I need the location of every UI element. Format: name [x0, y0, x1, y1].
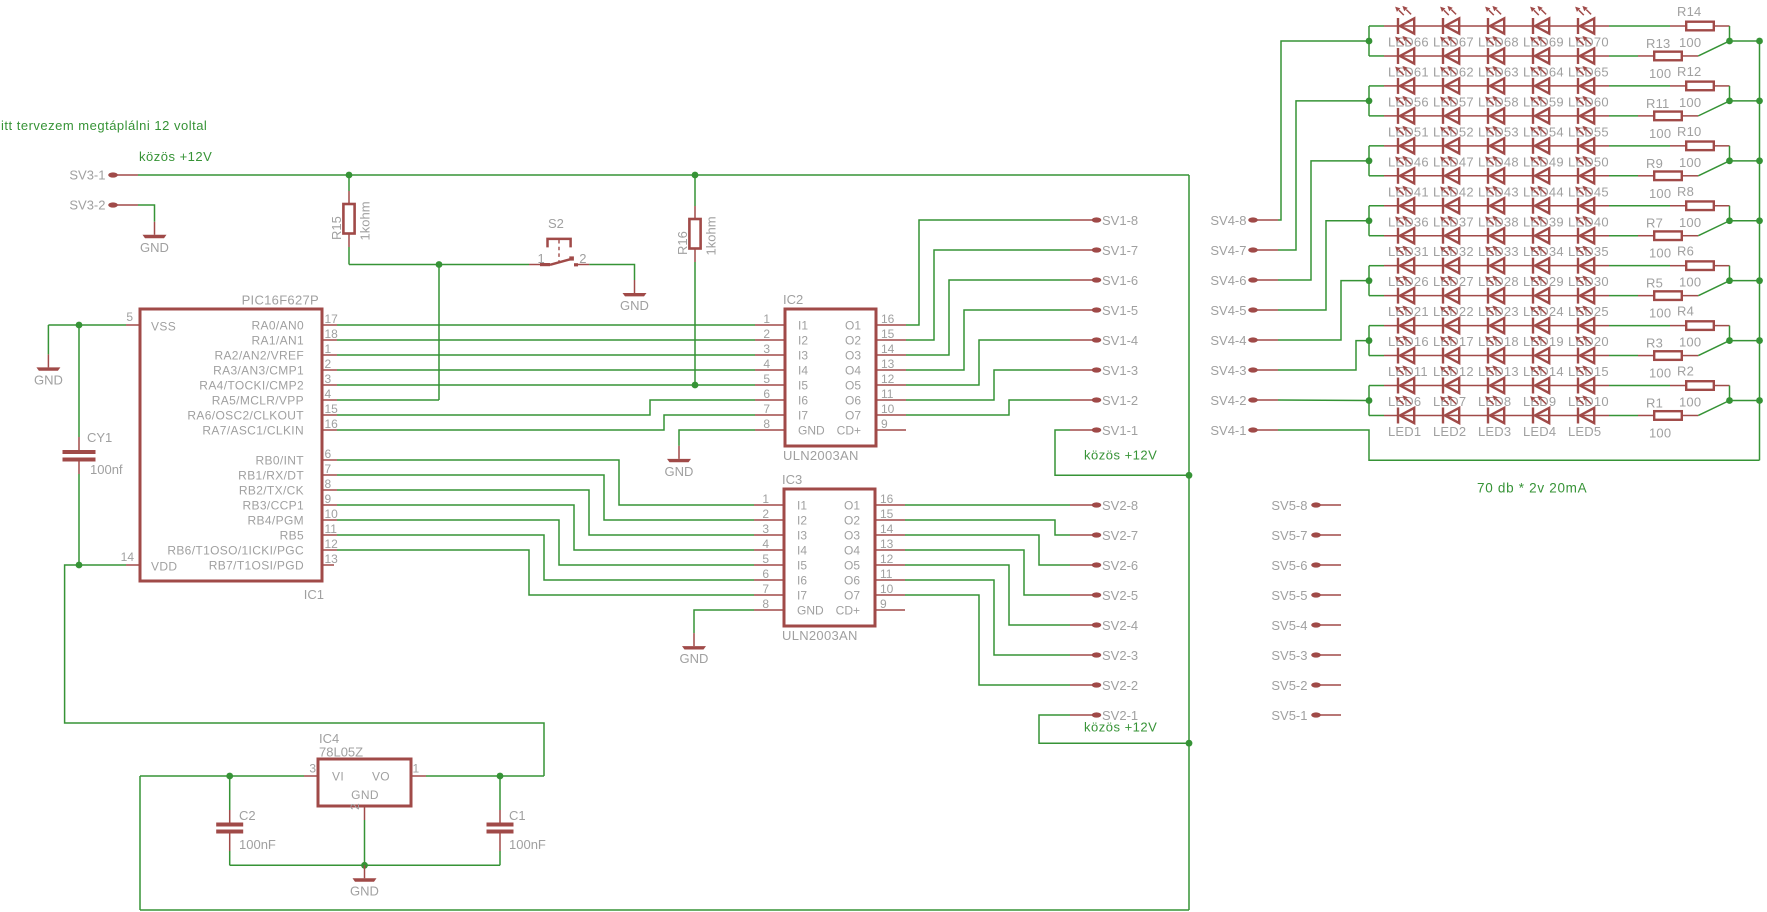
- svg-text:R3: R3: [1646, 336, 1663, 351]
- wire RB2 to IC3 I3: [337, 490, 754, 535]
- svg-text:GND: GND: [351, 788, 379, 802]
- LED LED55: [1575, 96, 1594, 124]
- LED LED59: [1530, 66, 1549, 94]
- wire LED row 13 to resistor: [1609, 385, 1670, 387]
- svg-text:SV1-5: SV1-5: [1102, 303, 1138, 318]
- wire LED pair 2 to right bus: [1730, 100, 1760, 102]
- switch S2: [529, 216, 589, 266]
- svg-text:SV3-2: SV3-2: [69, 198, 105, 213]
- wire IC3 O3 to SV2-6: [905, 535, 1070, 565]
- svg-text:R14: R14: [1677, 4, 1701, 19]
- svg-text:O1: O1: [844, 499, 860, 513]
- svg-text:IC3: IC3: [782, 472, 802, 487]
- LED LED67: [1440, 6, 1459, 34]
- svg-text:7: 7: [325, 462, 332, 476]
- junction dot pair 3 resistor join: [1726, 157, 1733, 164]
- svg-text:2: 2: [348, 803, 362, 810]
- wire LED matrix right bus vertical: [1759, 41, 1761, 460]
- junction dot LED pair 4 feed: [1366, 217, 1373, 224]
- svg-text:I5: I5: [798, 379, 808, 393]
- wire RA2 to IC2 I3: [337, 354, 755, 356]
- junction dot LED pair 1 feed: [1366, 38, 1373, 45]
- connector pin SV4-6: [1210, 273, 1278, 288]
- LED LED68: [1485, 6, 1504, 34]
- wire LED pair 3 left bracket: [1368, 146, 1370, 176]
- wire LED pair 6 left bracket: [1368, 326, 1370, 356]
- connector pin SV4-4: [1210, 333, 1278, 348]
- ground symbol below IC3: [693, 633, 695, 646]
- LED LED34: [1530, 216, 1549, 244]
- wire R4 to pair junction: [1729, 326, 1731, 341]
- wire S2 pin 2 to ground: [589, 265, 634, 281]
- wire RA3 to IC2 I4: [337, 369, 755, 371]
- resistor R12 (100 ohm): [1670, 64, 1730, 110]
- LED LED57: [1440, 66, 1459, 94]
- svg-text:O4: O4: [844, 544, 860, 558]
- LED LED21: [1395, 276, 1414, 304]
- svg-text:SV2-2: SV2-2: [1102, 678, 1138, 693]
- wire IC2 O7 to SV1-2: [906, 400, 1070, 415]
- LED LED51: [1395, 96, 1414, 124]
- junction dot pair 4 resistor join: [1726, 217, 1733, 224]
- wire LED row 5 cathode stub: [1369, 145, 1384, 147]
- wire R5 diagonal to pair junction: [1698, 281, 1729, 296]
- svg-text:I6: I6: [797, 574, 807, 588]
- resistor R8 (100 ohm): [1670, 184, 1730, 230]
- wire LED row 6 cathode stub: [1369, 175, 1384, 177]
- svg-text:PIC16F627P: PIC16F627P: [242, 293, 319, 308]
- svg-text:SV4-4: SV4-4: [1210, 333, 1246, 348]
- wire LED row 8 to resistor: [1609, 235, 1638, 237]
- svg-text:I1: I1: [797, 499, 807, 513]
- LED LED58: [1485, 66, 1504, 94]
- connector pin SV5-6: [1271, 558, 1341, 573]
- LED LED41: [1395, 156, 1414, 184]
- IC U3: ULN2003AN driver IC3: [754, 472, 905, 643]
- svg-text:13: 13: [880, 537, 894, 551]
- wire RA6 to IC2 I6: [337, 400, 755, 415]
- svg-text:SV4-6: SV4-6: [1210, 273, 1246, 288]
- connector pin SV5-1: [1271, 708, 1341, 723]
- connector pin SV2-3: [1070, 648, 1138, 663]
- svg-text:4: 4: [325, 387, 332, 401]
- junction dot LED pair 5 feed: [1366, 277, 1373, 284]
- wire RB0 to IC3 I1: [337, 460, 754, 505]
- svg-text:SV5-5: SV5-5: [1271, 588, 1307, 603]
- wire LED row 1 red line: [1384, 25, 1609, 27]
- wire LED row 4 to resistor: [1609, 115, 1638, 117]
- wire LED row 10 to resistor: [1609, 295, 1638, 297]
- svg-text:LED4: LED4: [1523, 424, 1556, 439]
- wire IC3 O7 to SV2-2: [905, 595, 1070, 685]
- resistor R3 (100 ohm): [1638, 336, 1698, 381]
- svg-text:100: 100: [1679, 215, 1701, 230]
- resistor R13 (100 ohm): [1638, 36, 1698, 81]
- wire LED row 3 red line: [1384, 85, 1609, 87]
- svg-text:RA5/MCLR/VPP: RA5/MCLR/VPP: [212, 394, 304, 408]
- connector pin SV1-1: [1070, 423, 1138, 438]
- svg-text:1kohm: 1kohm: [358, 201, 373, 240]
- LED LED22: [1440, 276, 1459, 304]
- svg-text:SV1-7: SV1-7: [1102, 243, 1138, 258]
- wire LED row 8 cathode stub: [1369, 235, 1384, 237]
- svg-text:1: 1: [762, 492, 769, 506]
- junction dot pair 2 resistor join: [1726, 98, 1733, 105]
- wire R11 diagonal to pair junction: [1698, 101, 1729, 116]
- LED LED46: [1395, 126, 1414, 154]
- LED LED53: [1485, 96, 1504, 124]
- svg-text:GND: GND: [620, 298, 649, 313]
- svg-text:RB7/T1OSI/PGD: RB7/T1OSI/PGD: [209, 559, 304, 573]
- svg-text:RB5: RB5: [280, 529, 304, 543]
- LED LED47: [1440, 126, 1459, 154]
- svg-text:R1: R1: [1646, 395, 1663, 410]
- LED LED10: [1575, 365, 1594, 393]
- LED LED13: [1485, 335, 1504, 363]
- svg-text:I6: I6: [798, 394, 808, 408]
- wire LED row 8 red line: [1384, 235, 1609, 237]
- svg-text:LED3: LED3: [1478, 424, 1511, 439]
- svg-text:1: 1: [413, 762, 420, 776]
- wire LED row 4 red line: [1384, 115, 1609, 117]
- svg-text:O6: O6: [844, 574, 860, 588]
- svg-text:RA3/AN3/CMP1: RA3/AN3/CMP1: [213, 364, 304, 378]
- LED LED27: [1440, 246, 1459, 274]
- svg-text:5: 5: [126, 310, 133, 324]
- wire LED pair 1 left bracket: [1368, 26, 1370, 56]
- wire RA1 to IC2 I2: [337, 339, 755, 341]
- resistor R6 (100 ohm): [1670, 244, 1730, 290]
- wire IC2 O1 to SV1-8: [906, 220, 1070, 325]
- wire +12V bus vertical right side: [1188, 175, 1190, 910]
- svg-text:100: 100: [1649, 126, 1671, 141]
- ground symbol below IC4: [364, 865, 366, 878]
- wire LED pair 4 to right bus: [1730, 220, 1760, 222]
- ground symbol below SV3-2: [154, 222, 156, 235]
- wire R1 diagonal to pair junction: [1698, 401, 1729, 416]
- wire IC2 O5 to SV1-4: [906, 340, 1070, 385]
- wire LED row 7 red line: [1384, 205, 1609, 207]
- wire RB6 to IC3 I7: [337, 550, 754, 595]
- junction dot pair 4 right bus: [1756, 217, 1763, 224]
- svg-text:I4: I4: [798, 364, 808, 378]
- LED LED29: [1530, 246, 1549, 274]
- ground symbol at VSS: [47, 325, 49, 354]
- svg-text:2: 2: [579, 251, 586, 266]
- connector pin SV4-8: [1210, 213, 1278, 228]
- svg-text:RB0/INT: RB0/INT: [256, 454, 305, 468]
- svg-text:GND: GND: [34, 372, 63, 387]
- junction dot LED pair 6 feed: [1366, 337, 1373, 344]
- svg-text:7: 7: [763, 402, 770, 416]
- LED LED66: [1395, 6, 1414, 34]
- svg-text:R16: R16: [675, 231, 690, 255]
- svg-text:VSS: VSS: [151, 320, 176, 334]
- svg-text:SV5-8: SV5-8: [1271, 498, 1307, 513]
- wire IC3 O5 to SV2-4: [905, 565, 1070, 625]
- svg-text:9: 9: [880, 597, 887, 611]
- wire IC2 O3 to SV1-6: [906, 280, 1070, 355]
- wire LED row 1 cathode stub: [1369, 25, 1384, 27]
- svg-text:14: 14: [880, 522, 894, 536]
- LED LED25: [1575, 276, 1594, 304]
- capacitor C1 100nF: [487, 776, 546, 865]
- wire LED pair 5 to right bus: [1730, 280, 1760, 282]
- svg-text:RB6/T1OSO/1ICKI/PGC: RB6/T1OSO/1ICKI/PGC: [167, 544, 304, 558]
- wire LED pair 7 to right bus: [1730, 400, 1760, 402]
- LED LED32: [1440, 216, 1459, 244]
- LED LED19: [1530, 306, 1549, 334]
- svg-text:70 db * 2v 20mA: 70 db * 2v 20mA: [1477, 481, 1587, 496]
- junction dot pair 1 right bus: [1756, 38, 1763, 45]
- svg-text:IC1: IC1: [304, 587, 324, 602]
- svg-text:6: 6: [762, 567, 769, 581]
- svg-text:RA1/AN1: RA1/AN1: [252, 334, 304, 348]
- wire LED row 9 cathode stub: [1369, 265, 1384, 267]
- LED LED63: [1485, 36, 1504, 64]
- svg-text:SV4-2: SV4-2: [1210, 393, 1246, 408]
- junction dot C1 top: [497, 773, 504, 780]
- svg-text:RB1/RX/DT: RB1/RX/DT: [238, 469, 304, 483]
- connector pin SV5-3: [1271, 648, 1341, 663]
- wire IC2 GND pin to ground: [679, 430, 755, 446]
- wire IC4 GND pin down: [364, 820, 366, 865]
- connector pin SV2-4: [1070, 618, 1138, 633]
- wire R13 diagonal to pair junction: [1698, 41, 1729, 56]
- svg-text:11: 11: [880, 567, 893, 581]
- svg-text:3: 3: [325, 372, 332, 386]
- LED LED35: [1575, 216, 1594, 244]
- svg-text:SV2-5: SV2-5: [1102, 588, 1138, 603]
- svg-text:GND: GND: [140, 240, 169, 255]
- LED LED26: [1395, 246, 1414, 274]
- svg-text:VDD: VDD: [151, 560, 177, 574]
- svg-text:100: 100: [1679, 35, 1701, 50]
- svg-text:17: 17: [325, 312, 339, 326]
- svg-text:SV5-7: SV5-7: [1271, 528, 1307, 543]
- svg-text:O3: O3: [844, 529, 860, 543]
- svg-text:CY1: CY1: [87, 430, 112, 445]
- connector pin SV1-8: [1070, 213, 1138, 228]
- svg-text:VO: VO: [372, 770, 390, 784]
- svg-text:100: 100: [1679, 95, 1701, 110]
- capacitor CY1 100nf: [63, 325, 123, 565]
- wire R2 to pair junction: [1729, 386, 1731, 401]
- svg-text:I3: I3: [798, 349, 808, 363]
- resistor R2 (100 ohm): [1670, 364, 1730, 410]
- LED LED24: [1530, 276, 1549, 304]
- wire R10 to pair junction: [1729, 146, 1731, 161]
- wire LED row 10 cathode stub: [1369, 295, 1384, 297]
- wire LED row 6 red line: [1384, 175, 1609, 177]
- svg-text:9: 9: [881, 417, 888, 431]
- svg-text:RA4/TOCKI/CMP2: RA4/TOCKI/CMP2: [199, 379, 304, 393]
- junction dot pair 7 right bus: [1756, 397, 1763, 404]
- wire LED row 12 cathode stub: [1369, 355, 1384, 357]
- svg-text:1kohm: 1kohm: [704, 216, 719, 255]
- capacitor C2 100nF: [216, 776, 276, 865]
- wire LED pair 7 left bracket: [1368, 386, 1370, 416]
- LED LED49: [1530, 126, 1549, 154]
- svg-text:12: 12: [880, 552, 894, 566]
- resistor R16 (1kohm) vertical at x=695: [675, 175, 719, 385]
- svg-text:1: 1: [538, 251, 545, 266]
- ground symbol below S2: [634, 280, 636, 293]
- wire SV4-8 to LED row pair 1: [1278, 41, 1369, 220]
- wire RA7 to IC2 I7: [337, 415, 755, 430]
- svg-text:R13: R13: [1646, 36, 1670, 51]
- connector pin SV1-2: [1070, 393, 1138, 408]
- wire MCLR node down to RA5 pin: [438, 265, 440, 401]
- wire LED row 2 cathode stub: [1369, 55, 1384, 57]
- junction dot VSS/CY1: [76, 322, 83, 329]
- svg-text:VI: VI: [332, 770, 344, 784]
- svg-text:itt tervezem megtáplálni 12 vo: itt tervezem megtáplálni 12 voltal: [1, 118, 207, 133]
- IC U4: 78L05Z voltage regulator IC4: [304, 731, 426, 820]
- wire RB5 to IC3 I6: [337, 535, 754, 580]
- connector pin SV4-3: [1210, 363, 1278, 378]
- junction dot pair 6 right bus: [1756, 337, 1763, 344]
- LED LED3: [1485, 395, 1504, 423]
- LED LED70: [1575, 6, 1594, 34]
- LED LED11: [1395, 335, 1414, 363]
- LED LED2: [1440, 395, 1459, 423]
- LED LED30: [1575, 246, 1594, 274]
- resistor R1 (100 ohm): [1638, 395, 1698, 440]
- svg-text:S2: S2: [548, 216, 564, 231]
- svg-text:SV1-3: SV1-3: [1102, 363, 1138, 378]
- svg-text:I7: I7: [798, 409, 808, 423]
- LED LED38: [1485, 186, 1504, 214]
- svg-text:15: 15: [881, 327, 895, 341]
- junction dot VDD/CY1: [76, 562, 83, 569]
- wire IC3 O2 to SV2-7: [905, 520, 1070, 535]
- resistor R14 (100 ohm): [1670, 4, 1730, 50]
- connector pin SV5-8: [1271, 498, 1341, 513]
- LED LED18: [1485, 306, 1504, 334]
- junction dot R16 to RA4 net: [692, 382, 699, 389]
- wire VDD pin to 5V riser: [65, 565, 544, 776]
- LED LED60: [1575, 66, 1594, 94]
- LED LED14: [1530, 335, 1549, 363]
- svg-text:14: 14: [881, 342, 895, 356]
- wire LED row 4 cathode stub: [1369, 115, 1384, 117]
- junction dot pair 5 right bus: [1756, 277, 1763, 284]
- junction dot +12V at R16: [692, 172, 699, 179]
- svg-text:O5: O5: [844, 559, 860, 573]
- IC U1: PIC16F627P microcontroller IC1: [121, 293, 339, 603]
- svg-text:16: 16: [881, 312, 895, 326]
- svg-text:O1: O1: [845, 319, 861, 333]
- junction dot LED pair 3 feed: [1366, 157, 1373, 164]
- wire IC3 O4 to SV2-5: [905, 550, 1070, 595]
- LED LED43: [1485, 156, 1504, 184]
- svg-text:C2: C2: [239, 808, 256, 823]
- svg-text:SV1-6: SV1-6: [1102, 273, 1138, 288]
- svg-text:I4: I4: [797, 544, 807, 558]
- svg-text:16: 16: [880, 492, 894, 506]
- svg-text:2: 2: [325, 357, 332, 371]
- wire LED row 7 cathode stub: [1369, 205, 1384, 207]
- svg-text:SV2-7: SV2-7: [1102, 528, 1138, 543]
- wire LED row 11 to resistor: [1609, 325, 1670, 327]
- svg-text:2: 2: [763, 327, 770, 341]
- wire LED row 11 cathode stub: [1369, 325, 1384, 327]
- connector pin SV1-4: [1070, 333, 1138, 348]
- LED LED50: [1575, 126, 1594, 154]
- svg-text:I1: I1: [798, 319, 808, 333]
- junction dot MCLR node: [436, 261, 443, 268]
- svg-text:O2: O2: [845, 334, 861, 348]
- wire +12V to IC4 VI: [140, 775, 304, 777]
- LED LED31: [1395, 216, 1414, 244]
- svg-text:SV4-7: SV4-7: [1210, 243, 1246, 258]
- junction dot pair 7 resistor join: [1726, 397, 1733, 404]
- connector pin SV5-5: [1271, 588, 1341, 603]
- LED LED52: [1440, 96, 1459, 124]
- svg-text:SV5-3: SV5-3: [1271, 648, 1307, 663]
- wire IC3 O1 to SV2-8: [905, 504, 1070, 506]
- svg-text:18: 18: [325, 327, 339, 341]
- LED LED42: [1440, 156, 1459, 184]
- svg-text:15: 15: [880, 507, 894, 521]
- svg-text:közös +12V: közös +12V: [1084, 720, 1157, 735]
- LED LED15: [1575, 335, 1594, 363]
- svg-text:I2: I2: [798, 334, 808, 348]
- wire LED pair 2 left bracket: [1368, 86, 1370, 116]
- LED LED62: [1440, 36, 1459, 64]
- wire R14 to pair junction: [1729, 26, 1731, 41]
- LED LED36: [1395, 186, 1414, 214]
- connector pin SV2-7: [1070, 528, 1138, 543]
- LED LED39: [1530, 186, 1549, 214]
- wire RB4 to IC3 I5: [337, 520, 754, 565]
- junction dot LED pair 2 feed: [1366, 98, 1373, 105]
- wire R3 diagonal to pair junction: [1698, 341, 1729, 356]
- connector pin SV2-8: [1070, 498, 1138, 513]
- svg-text:3: 3: [763, 342, 770, 356]
- LED LED6: [1395, 365, 1414, 393]
- svg-text:O5: O5: [845, 379, 861, 393]
- wire IC3 GND pin to ground: [694, 610, 754, 633]
- wire LED row 13 cathode stub: [1369, 385, 1384, 387]
- wire LED pair 1 to right bus: [1730, 40, 1760, 42]
- svg-text:CD+: CD+: [836, 604, 860, 618]
- svg-text:12: 12: [881, 372, 895, 386]
- svg-text:SV1-1: SV1-1: [1102, 423, 1138, 438]
- wire R15 bottom to switch S2 pin 1: [349, 264, 529, 266]
- svg-text:100: 100: [1649, 425, 1671, 440]
- LED LED56: [1395, 66, 1414, 94]
- svg-text:SV2-3: SV2-3: [1102, 648, 1138, 663]
- wire RB1 to IC3 I2: [337, 475, 754, 520]
- svg-text:O6: O6: [845, 394, 861, 408]
- svg-text:RA0/AN0: RA0/AN0: [252, 319, 304, 333]
- connector pin SV4-5: [1210, 303, 1278, 318]
- wire SV1-1 to +12V bus: [1055, 430, 1189, 475]
- wire +12V rail from SV3-1 to right bus corner: [138, 174, 1189, 176]
- svg-text:RA6/OSC2/CLKOUT: RA6/OSC2/CLKOUT: [187, 409, 304, 423]
- svg-text:100: 100: [1649, 306, 1671, 321]
- LED LED64: [1530, 36, 1549, 64]
- svg-text:GND: GND: [665, 464, 694, 479]
- junction dot pair 1 resistor join: [1726, 38, 1733, 45]
- wire LED row 10 red line: [1384, 295, 1609, 297]
- junction dot pair 6 resistor join: [1726, 337, 1733, 344]
- connector pin SV1-5: [1070, 303, 1138, 318]
- wire LED row 3 cathode stub: [1369, 85, 1384, 87]
- svg-text:C1: C1: [509, 808, 526, 823]
